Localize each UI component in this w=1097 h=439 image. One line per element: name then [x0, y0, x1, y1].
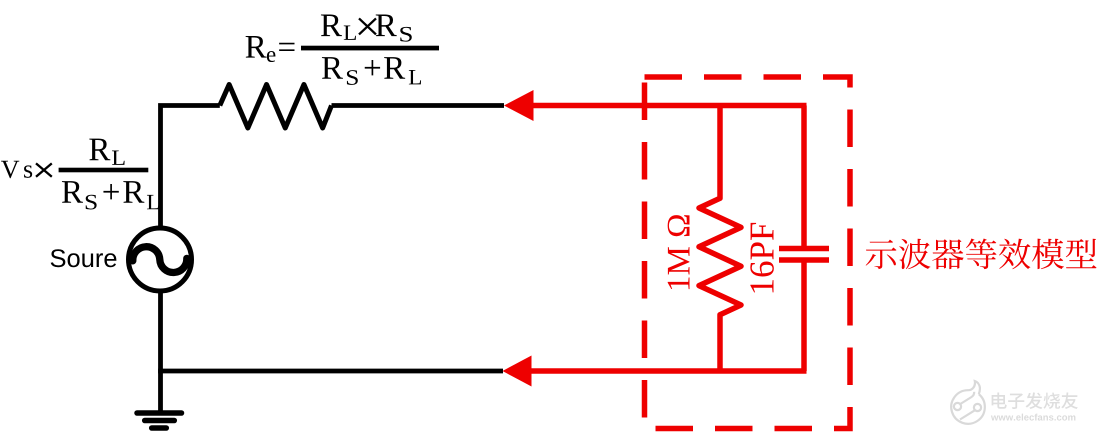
label formula Vs x RL / (RS + RL) [1, 139, 159, 210]
wire top-left vertical [161, 106, 220, 230]
label oscilloscope equivalent model (Chinese) [866, 239, 1097, 270]
wire bottom horizontal [158, 369, 503, 374]
wire top horizontal to probe tip [332, 103, 505, 108]
probe arrow bottom (red) [503, 356, 532, 387]
wire source to ground [158, 290, 163, 413]
resistor 1M ohm (vertical zigzag, scope input resistance) [699, 106, 741, 372]
ground symbol [137, 413, 182, 428]
probe arrow top (red) [504, 90, 534, 121]
capacitor 16PF (scope input capacitance) [779, 106, 829, 372]
dashed box oscilloscope equivalent model [645, 77, 851, 429]
source V1 sine wave [133, 247, 187, 273]
source V1 circle [129, 228, 192, 291]
red wire bottom [530, 368, 807, 374]
watermark elecfans logo [951, 381, 985, 424]
label 16PF (rotated) [750, 223, 774, 293]
label 1M ohm (rotated) [668, 215, 690, 289]
label Soure [51, 249, 66, 267]
label formula Re = RL x RS / (RS + RL) [246, 14, 439, 84]
watermark text elecfans [992, 392, 1078, 409]
red wire top [532, 103, 807, 109]
resistor Re (series equivalent resistance, horizontal zigzag) [220, 85, 332, 129]
